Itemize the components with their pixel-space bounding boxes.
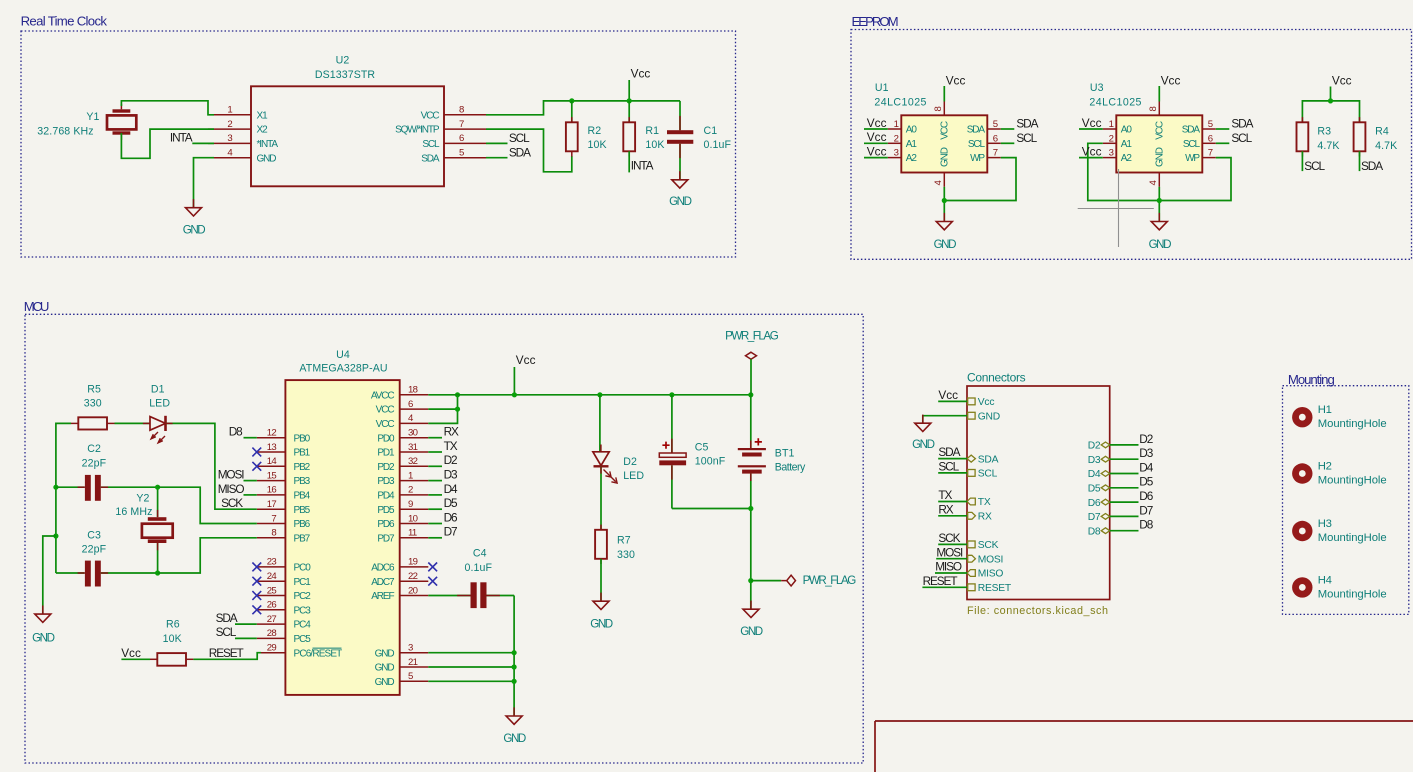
- wire U2 pin4 to ground: [194, 158, 215, 208]
- power flag PWR_FLAG top: [725, 329, 779, 395]
- svg-text:PB3: PB3: [294, 476, 311, 487]
- junction ground net U3: [1157, 198, 1162, 203]
- label D2 at U4 PD2: [428, 453, 457, 467]
- svg-text:GND: GND: [503, 732, 525, 745]
- label SCL at U4 PC5: [216, 625, 257, 639]
- svg-text:BT1: BT1: [775, 447, 795, 459]
- svg-text:Vcc: Vcc: [516, 353, 536, 367]
- junction Vcc rail at BT1: [748, 392, 753, 397]
- IC U2 DS1337STR body: [251, 55, 444, 187]
- svg-text:16 MHz: 16 MHz: [115, 506, 152, 518]
- label INTA below R1: [631, 158, 654, 172]
- junction Vcc rail at C5: [669, 392, 674, 397]
- svg-text:PC2: PC2: [294, 591, 312, 602]
- label D4 at U4 PD4: [428, 482, 458, 496]
- wire Vcc rail to R3 and R4: [1302, 101, 1359, 122]
- power flag PWR_FLAG bottom: [751, 574, 856, 587]
- svg-text:*INTA: *INTA: [257, 139, 279, 150]
- ground below R7: [590, 593, 612, 631]
- svg-text:GND: GND: [375, 677, 395, 688]
- label MISO at sheet: [935, 560, 967, 574]
- label D7 at U4 PD7: [428, 525, 457, 539]
- svg-text:INTA: INTA: [631, 158, 654, 172]
- svg-text:AVCC: AVCC: [371, 390, 395, 401]
- svg-text:Vcc: Vcc: [867, 130, 887, 144]
- svg-text:Vcc: Vcc: [938, 388, 958, 402]
- power Vcc above U1: [944, 73, 965, 101]
- svg-text:R5: R5: [87, 383, 101, 395]
- svg-text:PC3: PC3: [294, 605, 312, 616]
- wire U2 VCC pin to Vcc rail: [486, 101, 680, 115]
- sheet pin D7: [1088, 512, 1110, 523]
- svg-text:2: 2: [408, 485, 413, 496]
- label SCK at U4 PB5: [221, 496, 243, 510]
- wire U3 pin 2 to ground net: [1088, 143, 1160, 200]
- crystal Y2 16 MHz: [115, 487, 172, 573]
- junction Y2 bottom: [155, 570, 160, 575]
- svg-text:6: 6: [993, 133, 998, 144]
- hierarchical sheet Connectors: [967, 371, 1110, 617]
- svg-text:PWR_FLAG: PWR_FLAG: [725, 329, 779, 342]
- svg-text:Vcc: Vcc: [1161, 73, 1181, 87]
- label Vcc at sheet: [938, 388, 967, 402]
- svg-text:27: 27: [267, 614, 277, 625]
- svg-text:LED: LED: [623, 470, 644, 482]
- svg-text:X2: X2: [257, 125, 269, 136]
- svg-text:8: 8: [933, 107, 944, 112]
- svg-text:SDA: SDA: [967, 125, 986, 136]
- section EEPROM border: [851, 30, 1412, 260]
- svg-text:GND: GND: [978, 411, 1000, 422]
- svg-text:X1: X1: [257, 110, 269, 121]
- junction BT1 C5 bottom: [748, 506, 753, 511]
- wire U2 SQW pin loop to R2 bottom: [486, 129, 572, 172]
- svg-text:A2: A2: [1121, 153, 1133, 164]
- capacitor C3 22pF: [56, 529, 158, 586]
- svg-text:MISO: MISO: [978, 569, 1004, 580]
- svg-text:3: 3: [408, 643, 413, 654]
- svg-text:VCC: VCC: [1155, 121, 1166, 140]
- resistor R5 330: [71, 383, 115, 429]
- sheet title block border: [875, 721, 1413, 772]
- svg-text:5: 5: [993, 119, 998, 130]
- svg-text:R7: R7: [617, 535, 631, 547]
- svg-text:SCL: SCL: [1231, 131, 1252, 145]
- svg-text:MOSI: MOSI: [936, 545, 963, 559]
- svg-text:9: 9: [408, 499, 413, 510]
- section Mounting border: [1283, 386, 1409, 615]
- wire GND pins to rail: [428, 653, 514, 716]
- svg-text:SCL: SCL: [1016, 131, 1037, 145]
- svg-text:32: 32: [408, 456, 418, 467]
- label D5 at U4 PD5: [428, 496, 458, 510]
- svg-text:23: 23: [267, 557, 277, 568]
- svg-text:RESET: RESET: [209, 646, 244, 660]
- IC U4 ATMEGA328P-AU body: [285, 349, 399, 695]
- power Vcc above U3: [1159, 73, 1180, 101]
- svg-text:VCC: VCC: [376, 405, 395, 416]
- svg-text:D5: D5: [1139, 475, 1153, 489]
- U3 left pins A0 A1 A2: [1103, 119, 1133, 164]
- svg-text:PB0: PB0: [294, 433, 311, 444]
- capacitor C2 22pF: [56, 443, 158, 501]
- svg-text:RESET: RESET: [978, 583, 1012, 594]
- svg-text:7: 7: [993, 148, 998, 159]
- svg-text:Connectors: Connectors: [967, 371, 1026, 385]
- label Vcc at R6 left: [121, 646, 150, 660]
- svg-text:SCL: SCL: [422, 139, 440, 150]
- svg-text:SDA: SDA: [421, 153, 440, 164]
- power Vcc above R3 R4: [1331, 74, 1352, 101]
- label SCL below R3: [1304, 159, 1325, 173]
- svg-text:File: connectors.kicad_sch: File: connectors.kicad_sch: [967, 605, 1109, 617]
- svg-text:PC4: PC4: [294, 620, 312, 631]
- svg-text:SDA: SDA: [1182, 125, 1201, 136]
- svg-text:7: 7: [271, 513, 276, 524]
- svg-text:10: 10: [408, 513, 418, 524]
- wire U1 pin 4 to ground: [943, 187, 945, 222]
- svg-text:D4: D4: [444, 482, 458, 496]
- junction left rail C2: [53, 485, 58, 490]
- svg-text:D8: D8: [229, 425, 243, 439]
- svg-text:PB6: PB6: [294, 519, 311, 530]
- label MOSI at sheet: [936, 545, 967, 559]
- svg-text:PC5: PC5: [294, 634, 312, 645]
- svg-text:R3: R3: [1317, 125, 1331, 137]
- sheet pin TX: [967, 497, 991, 508]
- svg-text:24LC1025: 24LC1025: [874, 97, 927, 109]
- svg-text:PB4: PB4: [294, 491, 311, 502]
- LED D2: [593, 395, 644, 483]
- sheet pin D2: [1088, 441, 1110, 452]
- U3 right pins SDA SCL WP: [1182, 119, 1216, 164]
- svg-text:24: 24: [267, 571, 278, 582]
- svg-text:H4: H4: [1318, 574, 1332, 586]
- section Real Time Clock title: [21, 13, 108, 28]
- svg-text:11: 11: [408, 528, 417, 539]
- svg-text:U4: U4: [336, 349, 350, 361]
- svg-text:D6: D6: [1139, 489, 1153, 503]
- sheet pin MOSI: [968, 554, 1003, 565]
- svg-text:3: 3: [894, 148, 899, 159]
- wire R6 to U4 RESET pin: [193, 653, 261, 660]
- label TX at sheet: [938, 488, 967, 502]
- svg-text:PB2: PB2: [294, 462, 311, 473]
- sheet pin SDA: [967, 454, 999, 465]
- svg-text:D1: D1: [151, 383, 165, 395]
- svg-text:SDA: SDA: [938, 445, 960, 459]
- svg-text:SCL: SCL: [216, 625, 237, 639]
- svg-text:H1: H1: [1318, 404, 1332, 416]
- svg-text:D2: D2: [444, 453, 457, 467]
- svg-text:SCL: SCL: [938, 460, 959, 474]
- junction VCC bridge top: [455, 392, 460, 397]
- U4 right pins AVCC VCC PD0-PD7: [371, 385, 428, 545]
- svg-text:MISO: MISO: [935, 560, 962, 574]
- U3 pin 8 VCC top: [1148, 102, 1166, 140]
- svg-text:SCK: SCK: [938, 531, 960, 545]
- ground below BT1: [740, 601, 762, 639]
- svg-text:GND: GND: [183, 224, 205, 237]
- battery BT1: [738, 395, 806, 609]
- svg-text:28: 28: [267, 628, 277, 639]
- label SCK at sheet: [938, 531, 967, 545]
- svg-text:RX: RX: [938, 502, 953, 516]
- label D5 at sheet right: [1110, 475, 1154, 489]
- svg-text:D2: D2: [1088, 441, 1101, 452]
- svg-text:GND: GND: [32, 632, 54, 645]
- svg-text:C3: C3: [87, 529, 101, 541]
- label SDA below R4: [1361, 159, 1383, 173]
- ground at sheet GND: [912, 415, 934, 451]
- svg-text:TX: TX: [978, 497, 991, 508]
- svg-text:VCC: VCC: [421, 110, 440, 121]
- svg-text:PD0: PD0: [377, 433, 395, 444]
- svg-text:5: 5: [1208, 119, 1213, 130]
- svg-text:16: 16: [267, 485, 277, 496]
- section EEPROM title: [852, 14, 898, 29]
- power Vcc above U4: [514, 353, 535, 395]
- svg-text:SCL: SCL: [968, 139, 986, 150]
- svg-text:EEPROM: EEPROM: [852, 14, 898, 29]
- sheet pin D4: [1088, 469, 1110, 480]
- svg-text:12: 12: [267, 428, 277, 439]
- svg-text:D2: D2: [623, 456, 637, 468]
- svg-text:PC0: PC0: [294, 563, 312, 574]
- label SDA at sheet: [938, 445, 967, 459]
- svg-text:31: 31: [408, 442, 418, 453]
- label Vcc at U1 pin 2: [864, 130, 888, 144]
- wire Vcc power rail: [428, 394, 751, 396]
- svg-text:30: 30: [408, 428, 418, 439]
- label SCL at U1 pin 6: [1001, 131, 1038, 145]
- resistor R6 10K: [150, 619, 193, 666]
- svg-text:C5: C5: [695, 441, 709, 453]
- svg-text:U1: U1: [875, 82, 889, 94]
- svg-text:330: 330: [617, 549, 635, 561]
- svg-text:15: 15: [267, 470, 277, 481]
- svg-text:MCU: MCU: [24, 299, 49, 314]
- sheet pin D3: [1088, 455, 1110, 466]
- label RX at sheet: [938, 502, 967, 516]
- power Vcc in RTC: [629, 67, 650, 101]
- label INTA at U2 pin 3: [170, 130, 214, 144]
- svg-text:A1: A1: [906, 139, 918, 150]
- label Vcc at U1 pin 3: [864, 145, 888, 159]
- svg-text:PD7: PD7: [377, 533, 395, 544]
- svg-text:PD5: PD5: [377, 505, 395, 516]
- svg-text:GND: GND: [1149, 238, 1171, 251]
- U1 pin 4 GND bottom: [933, 147, 951, 187]
- capacitor C1 0.1uF: [667, 101, 732, 180]
- svg-text:10K: 10K: [645, 139, 664, 151]
- junction VCC bridge mid: [455, 407, 460, 412]
- section Mounting title: [1288, 372, 1335, 387]
- svg-text:RX: RX: [444, 425, 459, 439]
- svg-text:2: 2: [894, 133, 899, 144]
- svg-text:2: 2: [1109, 133, 1114, 144]
- wire GND sheet pin to ground: [923, 416, 967, 423]
- IC U3 24LC1025 body: [1089, 82, 1202, 172]
- crystal Y1: [37, 104, 136, 140]
- sheet pin RESET: [968, 583, 1012, 594]
- svg-text:GND: GND: [375, 663, 395, 674]
- capacitor C5 100nF polarized: [659, 395, 725, 509]
- svg-text:D3: D3: [1139, 446, 1153, 460]
- svg-text:8: 8: [1148, 107, 1159, 112]
- wire Y1 top to U2 pin X1: [121, 101, 214, 115]
- svg-text:AREF: AREF: [371, 591, 394, 602]
- section Real Time Clock border: [21, 31, 736, 257]
- svg-text:PWR_FLAG: PWR_FLAG: [803, 574, 857, 587]
- resistor R2 10K: [566, 101, 607, 157]
- svg-text:GND: GND: [375, 648, 395, 659]
- svg-text:26: 26: [267, 600, 277, 611]
- svg-text:6: 6: [459, 133, 464, 144]
- svg-text:WP: WP: [970, 153, 985, 164]
- svg-text:GND: GND: [590, 617, 612, 630]
- junction GND pin 21: [511, 664, 516, 669]
- label D2 at sheet right: [1110, 432, 1153, 446]
- svg-text:SCL: SCL: [1304, 159, 1325, 173]
- svg-text:MountingHole: MountingHole: [1318, 588, 1387, 600]
- U2 left pins 1-4 with numbers and names: [208, 105, 278, 165]
- svg-text:10K: 10K: [588, 139, 607, 151]
- svg-text:D6: D6: [444, 510, 458, 524]
- sheet pin D6: [1088, 498, 1110, 509]
- svg-text:GND: GND: [257, 153, 277, 164]
- junction GND pin 3: [511, 650, 516, 655]
- label SCL at U3 pin 6: [1216, 131, 1253, 145]
- svg-text:Mounting: Mounting: [1288, 372, 1335, 387]
- svg-text:SQW/*INTP: SQW/*INTP: [395, 125, 440, 136]
- svg-text:1: 1: [227, 105, 232, 116]
- svg-text:1: 1: [894, 119, 899, 130]
- svg-text:SDA: SDA: [216, 611, 238, 625]
- junction Vcc rail at riser: [512, 392, 517, 397]
- svg-text:D5: D5: [1088, 484, 1101, 495]
- sheet pin MISO: [967, 569, 1003, 580]
- svg-text:PB5: PB5: [294, 505, 311, 516]
- section MCU border: [25, 314, 863, 763]
- svg-text:SDA: SDA: [1016, 117, 1038, 131]
- junction Vcc R3 R4: [1328, 98, 1333, 103]
- sheet pin GND: [968, 411, 1000, 422]
- label SCL at U2 pin 6: [486, 131, 530, 145]
- wire D2 to R7: [600, 466, 602, 530]
- label RESET at sheet: [922, 574, 967, 588]
- label D4 at sheet right: [1110, 460, 1154, 474]
- resistor R4 4.7K: [1354, 117, 1398, 171]
- svg-text:1: 1: [408, 470, 413, 481]
- svg-text:Vcc: Vcc: [1082, 116, 1102, 130]
- mounting hole H4: [1292, 574, 1386, 600]
- sheet pin SCK: [968, 540, 999, 551]
- svg-text:D2: D2: [1139, 432, 1152, 446]
- U2 right pins 8-5 with numbers and names: [395, 105, 486, 165]
- label MISO at U4 PB4: [218, 482, 257, 496]
- svg-text:5: 5: [459, 148, 464, 159]
- svg-text:4.7K: 4.7K: [1317, 140, 1339, 152]
- svg-text:21: 21: [408, 657, 418, 668]
- svg-text:22pF: 22pF: [82, 458, 107, 470]
- ground MCU left: [32, 606, 54, 645]
- svg-text:R4: R4: [1375, 125, 1389, 137]
- svg-text:D7: D7: [444, 525, 457, 539]
- resistor R1 10K: [623, 101, 664, 172]
- svg-text:D7: D7: [1088, 512, 1101, 523]
- wire left rail from R5 to C3: [56, 423, 71, 573]
- ground below U1: [934, 213, 956, 251]
- svg-text:TX: TX: [444, 439, 458, 453]
- mounting hole H3: [1292, 518, 1386, 544]
- label MOSI at U4 PB3: [218, 468, 257, 482]
- svg-text:MountingHole: MountingHole: [1318, 532, 1387, 544]
- svg-text:3: 3: [227, 133, 232, 144]
- svg-text:SCK: SCK: [221, 496, 243, 510]
- svg-text:SCL: SCL: [509, 131, 530, 145]
- label D7 at sheet right: [1110, 503, 1153, 517]
- svg-text:1: 1: [1109, 119, 1114, 130]
- svg-text:A0: A0: [906, 125, 918, 136]
- svg-text:PD4: PD4: [377, 491, 395, 502]
- svg-text:RESET: RESET: [923, 574, 958, 588]
- sheet pin SCL: [968, 469, 998, 480]
- label D3 at U4 PD3: [428, 468, 458, 482]
- svg-text:D3: D3: [1088, 455, 1101, 466]
- U1 left pins A0 A1 A2: [888, 119, 918, 164]
- svg-text:330: 330: [84, 398, 102, 410]
- svg-text:Vcc: Vcc: [121, 646, 141, 660]
- svg-text:A2: A2: [906, 153, 918, 164]
- mounting hole H2: [1292, 461, 1386, 487]
- label SDA at U3 pin 5: [1216, 117, 1254, 131]
- svg-text:PC6/RESET: PC6/RESET: [294, 648, 343, 659]
- svg-text:SCL: SCL: [1183, 139, 1201, 150]
- label SDA at U1 pin 5: [1001, 117, 1039, 131]
- svg-text:TX: TX: [938, 488, 952, 502]
- svg-text:C1: C1: [704, 125, 718, 137]
- svg-text:Vcc: Vcc: [867, 145, 887, 159]
- svg-text:SCK: SCK: [978, 540, 999, 551]
- svg-text:R2: R2: [588, 125, 602, 137]
- svg-text:LED: LED: [149, 398, 170, 410]
- svg-text:ADC7: ADC7: [371, 577, 395, 588]
- svg-text:Y2: Y2: [136, 493, 149, 505]
- ground below U4: [503, 707, 525, 745]
- label RX at U4 PD0: [428, 425, 459, 439]
- svg-text:INTA: INTA: [170, 130, 193, 144]
- sheet pin Vcc: [968, 397, 995, 408]
- svg-text:ATMEGA328P-AU: ATMEGA328P-AU: [299, 363, 387, 375]
- svg-text:WP: WP: [1185, 153, 1200, 164]
- svg-text:C4: C4: [473, 547, 487, 559]
- svg-text:Vcc: Vcc: [1082, 145, 1102, 159]
- label TX at U4 PD1: [428, 439, 457, 453]
- junction ground net U1: [942, 198, 947, 203]
- svg-text:H3: H3: [1318, 518, 1332, 530]
- wire U3 pin 4 to ground: [1158, 187, 1160, 222]
- svg-text:7: 7: [459, 119, 464, 130]
- svg-text:GND: GND: [740, 625, 762, 638]
- svg-text:PC1: PC1: [294, 577, 312, 588]
- svg-text:D7: D7: [1139, 503, 1152, 517]
- svg-text:PB1: PB1: [294, 448, 311, 459]
- svg-text:A0: A0: [1121, 125, 1133, 136]
- svg-text:PD6: PD6: [377, 519, 395, 530]
- svg-text:VCC: VCC: [376, 419, 395, 430]
- junction left rail GND branch: [53, 533, 58, 538]
